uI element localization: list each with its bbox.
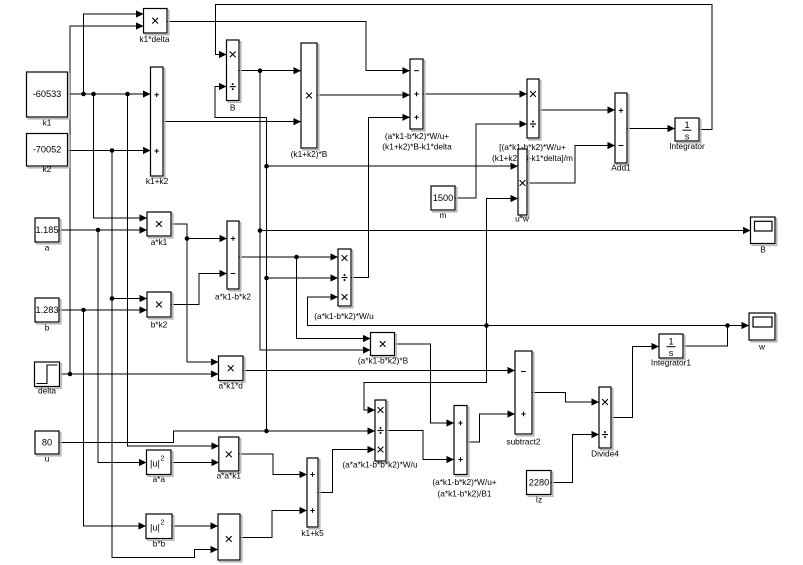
svg-text:a*k1-b*k2: a*k1-b*k2 (215, 292, 251, 302)
wire w branch down to (a*a*k1-b*b*k2)*W/u input 1 (364, 326, 487, 411)
svg-text:2: 2 (161, 520, 165, 527)
svg-text:Integrator1: Integrator1 (651, 358, 692, 368)
wire sum3 output to divide-by-m input 1 (423, 93, 527, 95)
constant a (37, 220, 61, 244)
svg-text:2280: 2280 (529, 478, 549, 488)
wire k2 branch down to b*k2 input 1 and b*b*k2 input 2 (112, 151, 147, 299)
wire k1+k5 output to (a*a*k1-b*b*k2)*W/u input 3 (318, 450, 375, 493)
wire B output to (k1+k2)*B input 1 (239, 70, 301, 72)
product b*k2 (149, 294, 173, 319)
svg-text:b: b (45, 323, 50, 333)
svg-text:a*k1: a*k1 (151, 237, 168, 247)
wire k2 output to k1+k2 (68, 150, 151, 152)
wire a*k1*d output to subtract2 minus input (243, 370, 515, 372)
svg-text:|u|: |u| (150, 459, 160, 469)
svg-text:(a*k1-b*k2)*B: (a*k1-b*k2)*B (358, 356, 409, 366)
svg-text:a*a*k1: a*a*k1 (217, 471, 242, 481)
wire divide-by-m output to Add1 plus input (539, 109, 615, 111)
svg-text:(k1+k2)*B-k1*delta]/m: (k1+k2)*B-k1*delta]/m (492, 153, 573, 163)
wire u output to divide (a*a*k1-b*b*k2)*W/u input 2 (59, 431, 375, 443)
svg-text:1: 1 (668, 337, 673, 347)
wire a*a output to a*a*k1 input 2 (171, 462, 219, 464)
svg-text:k1*delta: k1*delta (140, 34, 170, 44)
divide (a*k1-b*k2)*W/u (340, 251, 353, 308)
wire k1 output to k1+k2 (68, 93, 151, 95)
wire delta output to a*k1*d input 2 (60, 373, 219, 375)
svg-text:(a*k1-b*k2)*W/u+: (a*k1-b*k2)*W/u+ (432, 477, 496, 487)
divide Divide4 (601, 389, 613, 450)
wire (a*k1-b*k2)*B output down to sum2 plus input 1 (395, 344, 454, 423)
source delta (step) (36, 364, 61, 389)
svg-text:subtract2: subtract2 (506, 437, 541, 447)
divide (a*a*k1-b*b*k2)*W/u (377, 402, 388, 463)
wire a*k1-b*k2 output to (a*k1-b*k2)*W/u input 1 (239, 256, 338, 258)
wire b output to b*k2 input 2 (59, 309, 147, 311)
wire k1+k2 output to (k1+k2)*B input 2 (163, 121, 301, 123)
wire k1 branch down to a*k1 input 1 (94, 94, 147, 218)
svg-text:Iz: Iz (536, 495, 542, 505)
svg-text:b*k2: b*k2 (151, 320, 168, 330)
constant b (37, 300, 61, 324)
svg-text:1.283: 1.283 (36, 305, 59, 315)
product b*b*k2 (tall, unlabeled) (220, 516, 242, 562)
wire b*b*k2 output to k1+k5 input 2 (240, 511, 307, 538)
svg-text:(a*k1-b*k2)/B1: (a*k1-b*k2)/B1 (438, 489, 492, 499)
wire u branch to u*w input 1 (267, 165, 518, 167)
Integrator1 1/s (661, 336, 685, 360)
svg-text:Add1: Add1 (611, 163, 631, 173)
svg-text:m: m (440, 210, 447, 220)
wire (k1+k2)*B output to sum3 plus input (317, 94, 410, 96)
wire k1 branch down to a*a*k1 input 1 (128, 94, 219, 446)
svg-text:w: w (758, 342, 766, 352)
svg-text:s: s (669, 348, 674, 358)
wire B branch down to (a*k1-b*k2)*B input 2 (260, 71, 370, 350)
scope B (752, 219, 777, 246)
svg-text:k1+k2: k1+k2 (146, 176, 169, 186)
Integrator 1/s (677, 120, 701, 143)
svg-text:|u|: |u| (150, 523, 160, 533)
constant u (37, 433, 61, 456)
svg-text:(a*k1-b*k2)*W/u+: (a*k1-b*k2)*W/u+ (385, 131, 449, 141)
wire a branch down to a*a input (98, 230, 146, 463)
product k1*delta (145, 10, 169, 35)
wire sum2 output to subtract2 plus input (467, 414, 515, 442)
svg-text:k1+k5: k1+k5 (301, 528, 324, 538)
svg-text:1.185: 1.185 (36, 225, 59, 235)
svg-text:(k1+k2)*B: (k1+k2)*B (291, 149, 328, 159)
product (k1+k2)*B (tall) (303, 45, 319, 150)
svg-text:-70052: -70052 (33, 145, 62, 155)
svg-text:k1: k1 (43, 118, 52, 128)
constant k2 (28, 135, 69, 168)
svg-text:1: 1 (684, 120, 689, 130)
wire w line to scope w and back to (a*k1-b*k2)*W/u input 3 (308, 297, 749, 326)
svg-text:a*a: a*a (153, 474, 166, 484)
product a*k1*d (220, 358, 245, 383)
wire b*k2 output to a*k1-b*k2 minus input (171, 274, 227, 305)
wire k1*delta output to sum3 minus input (167, 22, 410, 71)
wire subtract2 output to Divide4 input 1 (532, 393, 599, 403)
wire b*b output to b*b*k2 input 1 (172, 525, 218, 527)
constant k1 (28, 74, 69, 119)
wire a*k1-b*k2 branch down to (a*k1-b*k2)*B input 1 (297, 257, 371, 339)
wire u branch to (a*k1-b*k2)*W/u input 2 (267, 277, 338, 279)
sum k1+k5 (309, 460, 320, 529)
wire (a*k1-b*k2)*W/u output up to sum3 plus input 3 (351, 117, 410, 277)
sum a*k1-b*k2 (229, 223, 241, 291)
math |u|^2 b*b (148, 516, 174, 541)
product (a*k1-b*k2)*B (372, 334, 396, 357)
wire Add1 output to Integrator (627, 128, 675, 130)
product a*k1 (149, 214, 173, 238)
wire integrator feedback to B divider input 1 (216, 5, 712, 130)
svg-text:[(a*k1-b*k2)*W/u+: [(a*k1-b*k2)*W/u+ (499, 142, 566, 152)
wire B branch to scope B (260, 230, 750, 232)
wire (a*a*k1-b*b*k2)*W/u output to sum2 plus input 2 (386, 431, 454, 460)
divide B (228, 42, 241, 103)
constant m (433, 188, 457, 212)
svg-text:(k1+k2)*B-k1*delta: (k1+k2)*B-k1*delta (382, 142, 452, 152)
wire a*k1 output to a*k1-b*k2 plus input and a*k1*d input 1 (171, 224, 227, 239)
constant Iz (528, 472, 553, 496)
wire u*w output to Add1 minus input (527, 146, 615, 184)
svg-text:Integrator: Integrator (669, 141, 705, 151)
wire k1 branch up to k1*delta input 1 (84, 14, 144, 94)
junction dots (81, 92, 86, 97)
svg-text:u*w: u*w (515, 214, 530, 224)
wire w branch down to u*w input 2 (487, 199, 518, 326)
svg-text:2: 2 (161, 456, 165, 463)
svg-text:a*k1*d: a*k1*d (218, 381, 243, 391)
svg-text:80: 80 (42, 438, 52, 448)
svg-text:s: s (685, 132, 690, 142)
sum2 (a*k1-b*k2)*W/u+(a*k1-b*k2)/B1 (456, 407, 469, 476)
math |u|^2 a*a (148, 452, 173, 477)
svg-text:b*b: b*b (153, 539, 166, 549)
wire Integrator1 output to w line (683, 326, 728, 347)
sum Add1 (617, 95, 629, 165)
svg-text:B: B (760, 245, 766, 255)
svg-text:k2: k2 (43, 164, 52, 174)
svg-text:B: B (230, 103, 236, 113)
wire delta branch up to k1*delta input 2 (70, 26, 143, 374)
wire m output to divide-by-m input 2 (455, 124, 527, 198)
wire u net vertical up to B divider input 2 (215, 87, 267, 432)
svg-text:a: a (45, 243, 50, 253)
divide [(a*k1-b*k2)*W/u+(k1+k2)*B-k1*delta]/m (529, 81, 541, 140)
sum subtract2 (517, 353, 534, 436)
svg-text:-60533: -60533 (33, 89, 62, 99)
wire a output to a*k1 input 2 (59, 229, 147, 231)
product a*a*k1 (tall) (221, 439, 241, 473)
scope w (751, 315, 777, 342)
svg-text:(a*k1-b*k2)*W/u: (a*k1-b*k2)*W/u (314, 311, 374, 321)
wire Iz output to Divide4 input 2 (551, 435, 599, 483)
sum k1+k2 (152, 69, 165, 178)
svg-text:u: u (45, 454, 50, 464)
wire Divide4 output to Integrator1 (611, 347, 659, 418)
svg-text:1500: 1500 (433, 193, 453, 203)
svg-text:Divide4: Divide4 (591, 449, 619, 459)
sum3 (a*k1-b*k2)*W/u+(k1+k2)*B-k1*delta (412, 61, 425, 131)
wire b branch down to b*b input (84, 310, 146, 526)
svg-text:(a*a*k1-b*b*k2)*W/u: (a*a*k1-b*b*k2)*W/u (342, 460, 418, 470)
wire a*a*k1 output to k1+k5 input 1 (239, 454, 307, 475)
svg-text:delta: delta (38, 386, 56, 396)
product u*w (tall narrow) (520, 151, 529, 217)
